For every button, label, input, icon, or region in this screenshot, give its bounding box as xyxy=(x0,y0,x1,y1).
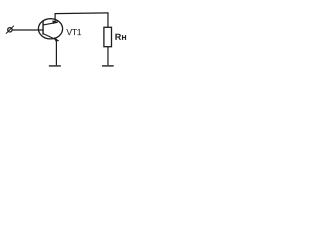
collector arrowhead xyxy=(52,21,58,25)
emitter diagonal xyxy=(43,34,58,41)
wire emitter to ground xyxy=(55,41,57,66)
collector vertical wire xyxy=(54,13,56,23)
terminal slash xyxy=(6,26,14,34)
ground bar left xyxy=(49,65,61,67)
wire rail drop to resistor xyxy=(107,13,109,27)
emitter arrowhead xyxy=(54,37,59,42)
collector diagonal xyxy=(43,22,57,25)
wire top rail xyxy=(55,12,109,15)
ground bar right xyxy=(102,65,114,67)
label VT1 xyxy=(66,29,81,35)
wire resistor to ground xyxy=(107,47,109,66)
transistor VT1 body circle xyxy=(38,19,62,39)
wire base xyxy=(12,29,43,31)
base bar xyxy=(42,21,44,35)
resistor Rн body xyxy=(104,27,112,46)
label Rн xyxy=(115,34,126,40)
input terminal xyxy=(8,28,12,32)
